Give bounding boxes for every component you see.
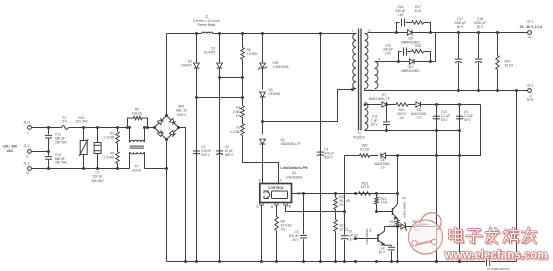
svg-text:50 V: 50 V xyxy=(457,25,464,29)
svg-text:1 kΩ: 1 kΩ xyxy=(389,224,396,228)
svg-text:LNK420EG: LNK420EG xyxy=(286,175,303,179)
svg-text:BAV21WS-7-F: BAV21WS-7-F xyxy=(369,97,390,101)
svg-text:250 VAC: 250 VAC xyxy=(55,140,68,144)
svg-text:J1-3: J1-3 xyxy=(23,121,30,125)
svg-text:LinkSwitch-PH: LinkSwitch-PH xyxy=(280,165,307,170)
svg-text:1 kV: 1 kV xyxy=(385,52,392,56)
svg-text:1%: 1% xyxy=(236,114,241,118)
svg-text:L1: L1 xyxy=(135,164,139,168)
svg-text:1%: 1% xyxy=(281,227,286,231)
svg-text:100 Ω: 100 Ω xyxy=(361,185,370,189)
svg-text:33 mH: 33 mH xyxy=(132,169,142,173)
svg-text:1%: 1% xyxy=(339,203,344,207)
svg-text:250 VAC: 250 VAC xyxy=(55,161,68,165)
svg-text:1 kΩ: 1 kΩ xyxy=(381,201,388,205)
svg-text:29 - 36 V, 2.1 A: 29 - 36 V, 2.1 A xyxy=(520,25,543,29)
svg-text:MMBT3904: MMBT3904 xyxy=(365,229,369,245)
svg-text:CONTROL: CONTROL xyxy=(268,186,284,190)
svg-text:MMBT3906: MMBT3906 xyxy=(402,202,406,218)
svg-text:S: S xyxy=(256,205,258,209)
svg-text:Ferrite Bead: Ferrite Bead xyxy=(198,23,216,27)
svg-text:Q2: Q2 xyxy=(402,196,406,200)
svg-text:51 Ω: 51 Ω xyxy=(415,48,422,52)
svg-text:VAC: VAC xyxy=(7,149,14,153)
svg-text:J1-2: J1-2 xyxy=(23,144,30,148)
svg-text:305 VAC: 305 VAC xyxy=(91,179,104,183)
svg-text:1.5 MΩ: 1.5 MΩ xyxy=(104,155,115,159)
svg-text:PI-4935-060712: PI-4935-060712 xyxy=(487,267,509,271)
svg-text:51 Ω: 51 Ω xyxy=(415,9,422,13)
svg-text:11: 11 xyxy=(377,57,380,61)
svg-text:2.2 MΩ: 2.2 MΩ xyxy=(230,130,241,134)
svg-text:DL4007: DL4007 xyxy=(204,50,215,54)
svg-text:1N4007: 1N4007 xyxy=(181,63,192,67)
svg-text:450 V: 450 V xyxy=(225,153,234,157)
svg-text:1%: 1% xyxy=(399,116,404,120)
svg-text:100 kΩ: 100 kΩ xyxy=(132,111,143,115)
svg-text:SB2000B-LTP: SB2000B-LTP xyxy=(281,142,301,146)
svg-text:50 V: 50 V xyxy=(371,123,378,127)
svg-text:5.1 kΩ: 5.1 kΩ xyxy=(360,147,370,151)
svg-text:L: L xyxy=(27,131,29,135)
svg-text:50 V: 50 V xyxy=(378,251,385,255)
svg-text:630 V: 630 V xyxy=(201,153,210,157)
svg-text:www.elecfans.com: www.elecfans.com xyxy=(444,248,548,262)
svg-text:7-F: 7-F xyxy=(380,166,385,170)
svg-text:600 V: 600 V xyxy=(324,155,333,159)
svg-text:U1: U1 xyxy=(292,171,296,175)
svg-text:1.5 MΩ: 1.5 MΩ xyxy=(104,135,115,139)
svg-text:7-F: 7-F xyxy=(417,116,422,120)
svg-text:J1-1: J1-1 xyxy=(23,162,30,166)
svg-text:25 V: 25 V xyxy=(292,238,299,242)
svg-text:1 kV: 1 kV xyxy=(397,13,404,17)
svg-text:20 kΩ: 20 kΩ xyxy=(505,63,514,67)
svg-text:RTN: RTN xyxy=(527,98,534,102)
svg-text:J2-1: J2-1 xyxy=(527,20,534,24)
svg-text:320 VAC: 320 VAC xyxy=(76,120,89,124)
svg-text:PQ3220: PQ3220 xyxy=(353,136,365,140)
svg-text:J2-2: J2-2 xyxy=(527,84,534,88)
svg-text:50 V: 50 V xyxy=(464,118,471,122)
svg-text:UF4008: UF4008 xyxy=(269,92,281,96)
svg-text:1.5KE200A: 1.5KE200A xyxy=(273,65,290,69)
svg-text:MBR40250D: MBR40250D xyxy=(401,69,420,73)
svg-text:1000 V: 1000 V xyxy=(176,113,187,117)
svg-text:FB: FB xyxy=(287,205,291,209)
svg-text:1.5 MΩ: 1.5 MΩ xyxy=(247,52,258,56)
svg-text:50 V: 50 V xyxy=(477,25,484,29)
svg-text:50 V: 50 V xyxy=(441,118,448,122)
svg-text:100 - 300: 100 - 300 xyxy=(3,145,17,149)
